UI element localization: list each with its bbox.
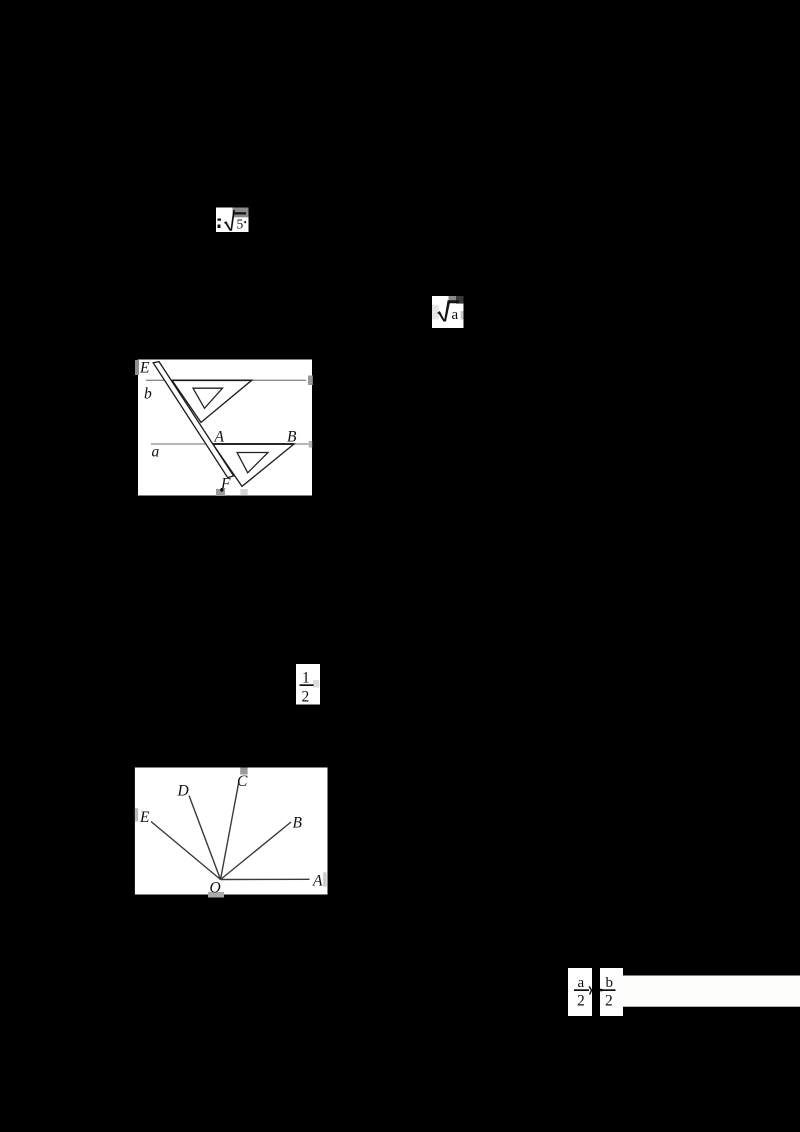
figure 2: gray nub bottom under O [208, 892, 224, 898]
figure 1: label A [214, 429, 225, 446]
figure 1: upper set square outer triangle [172, 380, 252, 422]
figure 2: gray nub right edge near A [323, 872, 326, 886]
fraction 1/2: light gray nub right edge [313, 680, 319, 688]
svg-text:B: B [293, 815, 303, 832]
figure 1: label E [139, 360, 150, 377]
fraction b/2: denominator 2 [605, 993, 613, 1010]
figure 1: label b [144, 386, 152, 403]
svg-text:E: E [139, 809, 150, 826]
figure 1: ruler (white slanted strip with black outline) [153, 362, 233, 478]
long white strip to right margin [616, 976, 800, 1007]
figure 1: gray nub left edge near E [135, 360, 139, 375]
figure 1: line a (gray full line) [151, 443, 309, 445]
formula sqrt(5): digit 5 [237, 217, 244, 232]
svg-text:a: a [578, 975, 585, 991]
figure 1: label B [287, 429, 297, 446]
figure 2: ray OA [221, 878, 310, 880]
figure 2: label O [210, 880, 221, 897]
figure 1: light gray nub at bottom center [240, 489, 247, 496]
figure 1: gray nub right end of line b [308, 376, 313, 386]
svg-text:a: a [452, 307, 459, 323]
figure 1: gray nub below F [216, 489, 225, 496]
svg-text:2: 2 [605, 993, 613, 1010]
svg-text:b: b [606, 975, 614, 991]
fraction a/2: comma mark at right edge [588, 986, 592, 995]
figure 2: ray OB [221, 822, 292, 880]
svg-text:O: O [210, 880, 221, 897]
svg-text:b: b [144, 386, 152, 403]
fraction 1/2: white background box [296, 664, 320, 705]
figure 2: gray nub left edge near E [135, 808, 138, 821]
svg-text:A: A [214, 429, 225, 446]
fraction b/2: small dot left edge [600, 989, 603, 992]
formula sqrt(a): gray mark right edge [461, 311, 464, 320]
formula sqrt(5): small mark after digit [244, 221, 246, 223]
formula sqrt(5): leftover text marks at left edge [218, 219, 222, 229]
figure 2: label D [177, 783, 189, 800]
fraction b/2: numerator b [606, 975, 614, 991]
fraction b/2: bar [602, 989, 616, 991]
figure 1: gray nub right end of line a [309, 441, 313, 448]
formula image sqrt(5): white background box [216, 208, 249, 233]
figure 1: dark top edge of upper set square on line b [172, 379, 252, 381]
figure 1: point dot at F [220, 488, 223, 491]
formula sqrt(a): dark corner block [456, 296, 464, 304]
fraction 1/2: bar [300, 684, 314, 686]
fraction 1/2: numerator 1 [302, 670, 310, 687]
figure 1: white background box [138, 360, 312, 496]
svg-text:A: A [312, 873, 323, 890]
svg-text:1: 1 [302, 670, 310, 687]
fraction 1/2: denominator 2 [302, 689, 310, 706]
fraction a/2: denominator 2 [577, 993, 585, 1010]
figure 1: dark top edge of lower set square on line a (A to B) [213, 443, 294, 445]
fraction b/2: white background box [600, 968, 623, 1016]
figure 2: label E [139, 809, 150, 826]
formula sqrt(a): gray corner block [449, 296, 457, 301]
figure 1: lower set square outer triangle [213, 444, 294, 486]
svg-text:B: B [287, 429, 297, 446]
fraction a/2: numerator a [578, 975, 585, 991]
formula sqrt(5): radical sign [224, 210, 235, 231]
figure 1: lower set square inner hole [237, 453, 268, 473]
fraction a/2: white background box [568, 968, 592, 1016]
svg-text:2: 2 [302, 689, 310, 706]
figure 2: ray OD [189, 796, 221, 880]
svg-text:2: 2 [577, 993, 585, 1010]
svg-text:C: C [237, 773, 248, 790]
figure 2: white background box [135, 768, 328, 895]
svg-text:5: 5 [237, 217, 244, 232]
figure 1: label F [220, 476, 231, 493]
formula sqrt(a): letter a [452, 307, 459, 323]
formula image sqrt(a): white background box [432, 296, 464, 328]
svg-text:a: a [152, 444, 160, 461]
figure 2: gray nub top edge [240, 768, 247, 775]
figure 1: line b (gray full line) [146, 379, 306, 381]
figure 2: label B [293, 815, 303, 832]
figure 1: label a [152, 444, 160, 461]
svg-text:E: E [139, 360, 150, 377]
figure 1: upper set square inner hole [193, 388, 223, 408]
figure 2: label C [237, 773, 248, 790]
figure 2: ray OC [221, 781, 240, 880]
formula sqrt(a): light gray strip left [432, 305, 439, 320]
figure 2: label A [312, 873, 323, 890]
formula sqrt(5): gray corner block [233, 208, 249, 218]
formula sqrt(a): radical sign [437, 300, 459, 321]
svg-text:D: D [177, 783, 189, 800]
figure 2: ray OE [151, 822, 221, 880]
fraction a/2: bar [574, 989, 589, 991]
